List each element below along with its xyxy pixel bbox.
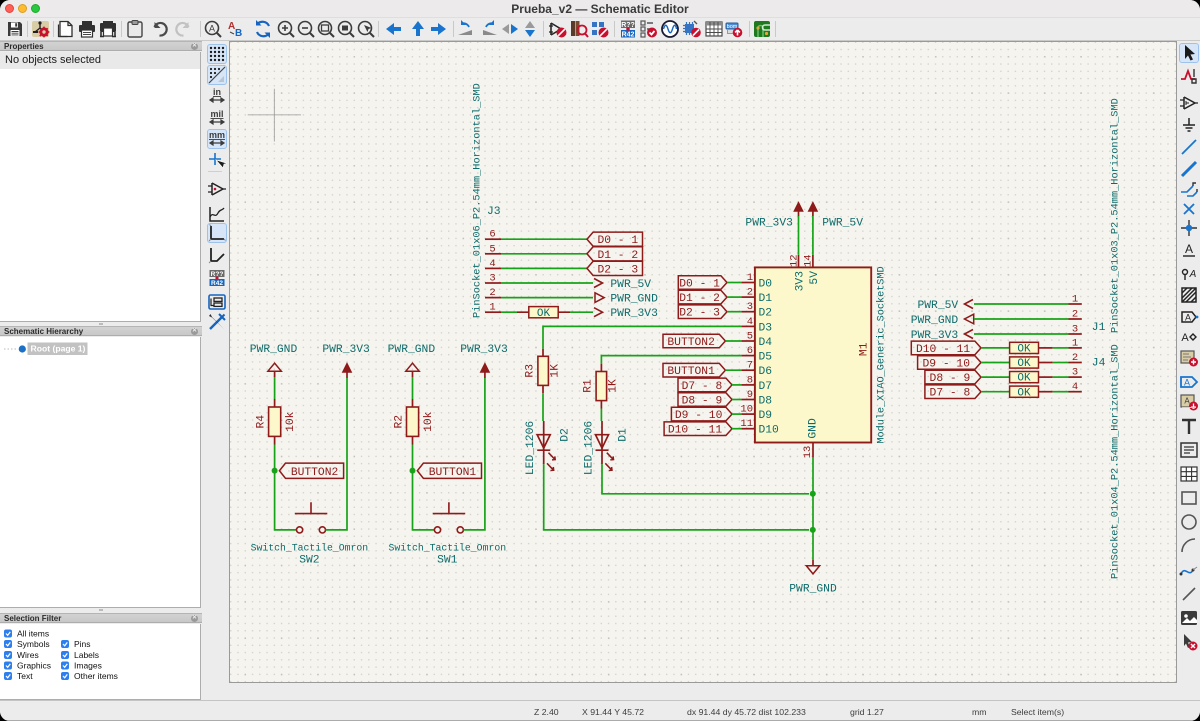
svg-text:D10: D10 xyxy=(759,425,780,437)
wire J3 pin4 to D2-3 xyxy=(501,267,587,269)
wire J3 pin1 through OK to PWR_3V3 xyxy=(501,311,593,313)
hierarchical label D7 - 8 at J4 xyxy=(925,385,981,400)
switch SW1 Switch_Tactile_Omron xyxy=(389,502,507,566)
svg-text:1K: 1K xyxy=(549,364,561,378)
svg-text:9: 9 xyxy=(747,389,753,401)
hierarchical label D8 - 9 at M1 xyxy=(678,393,741,408)
svg-text:2: 2 xyxy=(747,287,753,299)
hierarchical label D10 - 11 at M1 xyxy=(664,422,741,437)
wire R1 to LED D1 xyxy=(600,409,602,422)
global label PWR_5V at J1 pin 1 xyxy=(918,300,973,313)
svg-text:D9: D9 xyxy=(759,410,773,422)
svg-text:D2 - 3: D2 - 3 xyxy=(597,264,638,276)
svg-text:Other items: Other items xyxy=(74,671,118,681)
svg-text:3: 3 xyxy=(1072,324,1078,336)
main toolbar xyxy=(0,18,1200,41)
svg-text:R4: R4 xyxy=(256,415,268,429)
svg-text:D2: D2 xyxy=(559,428,571,442)
svg-text:PWR_GND: PWR_GND xyxy=(388,344,436,356)
svg-text:14: 14 xyxy=(803,254,815,267)
svg-text:PinSocket_01x04_P2.54mm_Horizo: PinSocket_01x04_P2.54mm_Horizontal_SMD xyxy=(1110,344,1122,579)
left dock: Properties panel xyxy=(0,41,202,51)
svg-text:R1: R1 xyxy=(583,379,595,393)
junction at D1 rail xyxy=(810,491,816,497)
svg-text:PWR_GND: PWR_GND xyxy=(789,584,837,596)
svg-text:10k: 10k xyxy=(423,411,435,432)
M1 pin 3 (D2) xyxy=(741,301,772,320)
svg-text:1: 1 xyxy=(1072,337,1078,349)
svg-text:1: 1 xyxy=(1072,294,1078,306)
svg-text:OK: OK xyxy=(1017,373,1031,385)
wire J3 pin6 to D0-1 xyxy=(501,238,587,240)
svg-text:13: 13 xyxy=(802,446,814,459)
svg-text:PinSocket_01x06_P2.54mm_Horizo: PinSocket_01x06_P2.54mm_Horizontal_SMD xyxy=(471,83,483,318)
wire switch SW1 to PWR_3V3 xyxy=(464,378,485,530)
hierarchical label D9 - 10 at J4 xyxy=(918,356,981,371)
M1 pin 7 (D6) xyxy=(741,360,772,379)
svg-text:D10 - 11: D10 - 11 xyxy=(668,425,722,437)
svg-text:Graphics: Graphics xyxy=(17,661,51,671)
svg-text:2: 2 xyxy=(489,287,495,299)
svg-text:Pins: Pins xyxy=(74,639,91,649)
LED D2 xyxy=(525,421,571,475)
svg-text:D8: D8 xyxy=(759,396,773,408)
J3 pin 4 xyxy=(485,258,501,270)
svg-text:PWR_5V: PWR_5V xyxy=(610,279,651,291)
svg-text:3: 3 xyxy=(747,301,753,313)
J3 pin 5 xyxy=(485,243,501,255)
hierarchical label BUTTON1 at M1 pin D6 xyxy=(663,363,741,378)
svg-text:PinSocket_01x03_P2.54mm_Horizo: PinSocket_01x03_P2.54mm_Horizontal_SMD xyxy=(1110,98,1122,333)
svg-text:mil: mil xyxy=(210,109,223,119)
no-connect flag OK on J4 pin 1 xyxy=(981,342,1039,355)
svg-text:GND: GND xyxy=(808,418,820,439)
wire and J4 pin 3 xyxy=(1039,367,1082,379)
svg-text:D1 - 2: D1 - 2 xyxy=(679,293,720,305)
global label PWR_GND at J3 pin2 xyxy=(595,293,658,306)
svg-text:LED_1206: LED_1206 xyxy=(584,421,596,475)
wire J3 pin2 to PWR_GND xyxy=(501,297,593,299)
svg-text:D9 - 10: D9 - 10 xyxy=(675,410,723,422)
svg-text:5V: 5V xyxy=(809,271,821,285)
wire R4 to switch SW2 xyxy=(275,471,297,530)
svg-text:M1: M1 xyxy=(859,342,871,356)
svg-text:PWR_GND: PWR_GND xyxy=(610,294,658,306)
hierarchical label D2 - 3 at M1 xyxy=(678,305,741,320)
LED D1 xyxy=(584,421,630,475)
svg-text:PWR_3V3: PWR_3V3 xyxy=(610,308,658,320)
J3 pin 2 xyxy=(485,287,501,299)
power symbol PWR_GND below M1 xyxy=(789,560,837,596)
hierarchical label BUTTON2 xyxy=(279,463,343,479)
svg-text:Module_XIAO_Generic_SocketSMD: Module_XIAO_Generic_SocketSMD xyxy=(876,266,888,443)
svg-text:2: 2 xyxy=(1072,352,1078,364)
hierarchical label D1 - 2 at M1 xyxy=(678,290,741,305)
resistor R4 10k xyxy=(256,377,297,471)
M1 pin 14 (5V) xyxy=(803,254,821,284)
power symbol PWR_GND (SW1 branch) xyxy=(388,344,436,377)
svg-text:OK: OK xyxy=(1017,387,1031,399)
svg-text:All items: All items xyxy=(17,629,49,639)
svg-text:A: A xyxy=(1185,242,1193,256)
svg-text:D9 - 10: D9 - 10 xyxy=(923,359,971,371)
svg-text:D8 - 9: D8 - 9 xyxy=(930,373,971,385)
svg-text:Root (page 1): Root (page 1) xyxy=(31,344,86,354)
macOS title bar xyxy=(0,0,1200,18)
svg-text:PWR_3V3: PWR_3V3 xyxy=(460,344,508,356)
left dock: Selection Filter xyxy=(99,609,103,611)
wire switch SW2 to PWR_3V3 xyxy=(326,378,347,530)
svg-text:SW2: SW2 xyxy=(299,555,319,567)
svg-text:B: B xyxy=(235,28,242,39)
M1 pin 6 (D5) xyxy=(741,345,772,364)
wire LED D2 to GND rail xyxy=(544,464,809,530)
hierarchical label D0 - 1 at M1 xyxy=(678,276,741,291)
hierarchical label D8 - 9 at J4 xyxy=(925,370,981,385)
svg-text:3: 3 xyxy=(489,273,495,285)
no-connect flag OK on J4 pin 3 xyxy=(981,372,1039,385)
connector J4 reference designator xyxy=(1092,358,1106,370)
svg-text:PWR_3V3: PWR_3V3 xyxy=(322,344,370,356)
wire M1 GND down xyxy=(812,458,814,560)
global label PWR_GND at J1 pin 2 xyxy=(911,314,974,327)
junction at D2 rail xyxy=(810,527,816,533)
svg-text:PWR_5V: PWR_5V xyxy=(918,300,959,312)
hierarchical label BUTTON1 xyxy=(417,463,481,479)
svg-text:OK: OK xyxy=(537,308,551,320)
wire and J4 pin 1 xyxy=(1039,337,1082,349)
no-connect flag OK on J4 pin 4 xyxy=(981,386,1039,399)
power symbol PWR_GND (SW2 branch) xyxy=(250,344,298,377)
svg-text:Wires: Wires xyxy=(17,650,39,660)
M1 value label xyxy=(876,266,888,443)
svg-text:8: 8 xyxy=(747,374,753,386)
M1 pin 4 (D3) xyxy=(741,316,772,335)
svg-text:OK: OK xyxy=(1017,344,1031,356)
no-connect flag OK on J4 pin 2 xyxy=(981,357,1039,370)
svg-text:J4: J4 xyxy=(1092,358,1106,370)
hierarchical label D1 - 2 xyxy=(587,247,643,262)
svg-text:R42: R42 xyxy=(211,280,223,287)
svg-text:D2 - 3: D2 - 3 xyxy=(679,308,720,320)
M1 pin 1 (D0) xyxy=(741,272,772,291)
svg-text:5: 5 xyxy=(747,331,753,343)
status bar xyxy=(0,700,1200,721)
junction at BUTTON2 tap xyxy=(272,468,278,474)
no-connect flag OK on J3 pin1 xyxy=(529,307,558,320)
hierarchical label D9 - 10 at M1 xyxy=(671,407,741,422)
svg-text:R42: R42 xyxy=(621,31,634,38)
svg-text:D8 - 9: D8 - 9 xyxy=(682,396,723,408)
svg-text:PWR_3V3: PWR_3V3 xyxy=(745,218,793,230)
wire and J4 pin 4 xyxy=(1039,381,1082,393)
svg-text:D5: D5 xyxy=(759,352,773,364)
svg-text:PWR_GND: PWR_GND xyxy=(911,315,959,327)
svg-text:D1: D1 xyxy=(759,293,773,305)
M1 pin 10 (D9) xyxy=(740,404,772,423)
svg-text:A: A xyxy=(1184,378,1190,388)
connector J3 reference designator xyxy=(487,206,501,218)
right tool strip xyxy=(1178,41,1200,700)
svg-text:Switch_Tactile_Omron: Switch_Tactile_Omron xyxy=(251,543,369,554)
svg-text:1K: 1K xyxy=(608,379,620,393)
wire R1 to M1 pin D5 xyxy=(601,356,741,364)
M1 pin 9 (D8) xyxy=(741,389,772,408)
svg-text:D3: D3 xyxy=(759,322,773,334)
svg-text:D7: D7 xyxy=(759,381,773,393)
svg-text:5: 5 xyxy=(489,243,495,255)
schematic canvas xyxy=(229,41,1177,683)
M1 pin 8 (D7) xyxy=(741,374,772,393)
connector J4 value PinSocket_01x04_P2.54mm_Horizontal_SMD xyxy=(1110,344,1122,579)
svg-text:OK: OK xyxy=(1017,358,1031,370)
svg-text:D1: D1 xyxy=(618,428,630,442)
svg-text:BUTTON2: BUTTON2 xyxy=(291,467,338,479)
junction at BUTTON1 tap xyxy=(410,468,416,474)
svg-text:2: 2 xyxy=(1072,309,1078,321)
svg-text:BUTTON1: BUTTON1 xyxy=(429,467,477,479)
wire R3 to M1 pin D3 xyxy=(543,326,741,348)
power symbol PWR_3V3 (SW2 branch) xyxy=(322,344,370,378)
switch SW2 Switch_Tactile_Omron xyxy=(251,502,369,566)
hierarchical label D10 - 11 at J4 xyxy=(911,341,981,356)
svg-text:4: 4 xyxy=(489,258,495,270)
resistor R2 10k xyxy=(394,377,435,471)
svg-text:1: 1 xyxy=(747,272,753,284)
wire J3 pin5 to D1-2 xyxy=(501,253,587,255)
svg-text:10k: 10k xyxy=(285,411,297,432)
svg-text:Labels: Labels xyxy=(74,650,99,660)
M1 reference designator xyxy=(859,342,871,356)
connector J1 reference designator xyxy=(1092,322,1106,334)
sheet origin crosshair xyxy=(248,89,301,142)
svg-text:J3: J3 xyxy=(487,206,501,218)
svg-text:Images: Images xyxy=(74,661,102,671)
wire and J1 pin 3 xyxy=(974,324,1082,336)
svg-text:PWR_3V3: PWR_3V3 xyxy=(911,330,959,342)
svg-text:3V3: 3V3 xyxy=(795,271,807,292)
resistor R3 1K xyxy=(525,349,562,394)
module M1 body Module_XIAO_Generic_SocketSMD xyxy=(755,267,871,442)
svg-text:A: A xyxy=(1189,269,1197,280)
svg-text:10: 10 xyxy=(740,404,753,416)
power symbol PWR_3V3 (SW1 branch) xyxy=(460,344,508,378)
resistor R1 1K xyxy=(583,364,620,409)
connector J3 value label PinSocket_01x06_P2.54mm_Horizontal_SMD xyxy=(471,83,483,318)
svg-text:4: 4 xyxy=(1072,381,1078,393)
M1 pin 11 (D10) xyxy=(740,418,779,437)
power symbol PWR_3V3 above M1 xyxy=(745,202,803,255)
svg-text:6: 6 xyxy=(747,345,753,357)
svg-text:D4: D4 xyxy=(759,337,773,349)
wire and J1 pin 2 xyxy=(974,309,1082,321)
svg-text:D7 - 8: D7 - 8 xyxy=(930,388,971,400)
power symbol PWR_5V above M1 xyxy=(808,202,863,255)
svg-text:R2: R2 xyxy=(394,415,406,429)
svg-text:4: 4 xyxy=(747,316,753,328)
M1 pin 5 (D4) xyxy=(741,331,772,350)
svg-text:BUTTON1: BUTTON1 xyxy=(667,366,715,378)
svg-text:BUTTON2: BUTTON2 xyxy=(667,337,714,349)
svg-text:D7 - 8: D7 - 8 xyxy=(682,381,723,393)
svg-text:D10 - 11: D10 - 11 xyxy=(916,344,970,356)
svg-text:mm: mm xyxy=(209,130,225,140)
svg-text:12: 12 xyxy=(788,254,800,267)
left dock: Schematic Hierarchy xyxy=(99,323,103,325)
wire J3 pin3 to PWR_5V xyxy=(501,282,593,284)
wire R3 to LED D2 xyxy=(542,393,544,421)
left tool strip xyxy=(202,41,229,700)
svg-text:D1 - 2: D1 - 2 xyxy=(597,250,638,262)
svg-text:Text: Text xyxy=(17,671,33,681)
wire R2 to switch SW1 xyxy=(413,471,435,530)
M1 pin 12 (3V3) xyxy=(788,254,806,291)
J3 pin 6 xyxy=(485,229,501,241)
svg-text:A: A xyxy=(208,24,214,34)
hierarchical label BUTTON2 at M1 pin D4 xyxy=(663,334,741,349)
global label PWR_5V at J3 pin3 xyxy=(594,279,651,292)
J3 pin 1 xyxy=(485,302,501,314)
wire LED D1 to GND rail xyxy=(602,464,809,494)
svg-text:R3: R3 xyxy=(525,364,537,378)
svg-text:6: 6 xyxy=(489,229,495,241)
svg-text:D2: D2 xyxy=(759,308,773,320)
svg-text:11: 11 xyxy=(740,418,753,430)
global label PWR_3V3 at J1 pin 3 xyxy=(911,330,973,343)
svg-text:PWR_GND: PWR_GND xyxy=(250,344,298,356)
svg-text:3: 3 xyxy=(1072,367,1078,379)
svg-text:D0 - 1: D0 - 1 xyxy=(679,279,720,291)
svg-text:A: A xyxy=(1185,313,1191,323)
svg-text:J1: J1 xyxy=(1092,322,1106,334)
wire and J1 pin 1 xyxy=(974,294,1082,306)
svg-text:A: A xyxy=(1181,332,1189,344)
global label PWR_3V3 at J3 pin1 xyxy=(594,308,658,321)
hierarchical label D7 - 8 at M1 xyxy=(678,378,741,393)
svg-text:1: 1 xyxy=(489,302,495,314)
connector J1 value PinSocket_01x03_P2.54mm_Horizontal_SMD xyxy=(1110,98,1122,333)
J3 pin 3 xyxy=(485,273,501,285)
svg-text:D0 - 1: D0 - 1 xyxy=(597,235,638,247)
svg-text:Symbols: Symbols xyxy=(17,639,50,649)
svg-text:PWR_5V: PWR_5V xyxy=(822,218,863,230)
M1 pin 13 (GND) xyxy=(802,418,820,458)
svg-text:LED_1206: LED_1206 xyxy=(525,421,537,475)
svg-text:7: 7 xyxy=(747,360,753,372)
svg-text:Switch_Tactile_Omron: Switch_Tactile_Omron xyxy=(389,543,507,554)
hierarchical label D0 - 1 xyxy=(587,232,643,247)
hierarchical label D2 - 3 xyxy=(587,261,643,276)
M1 pin 2 (D1) xyxy=(741,287,772,306)
svg-text:in: in xyxy=(213,87,221,97)
svg-text:D0: D0 xyxy=(759,279,773,291)
svg-text:SW1: SW1 xyxy=(437,555,458,567)
svg-text:D6: D6 xyxy=(759,366,773,378)
wire and J4 pin 2 xyxy=(1039,352,1082,364)
